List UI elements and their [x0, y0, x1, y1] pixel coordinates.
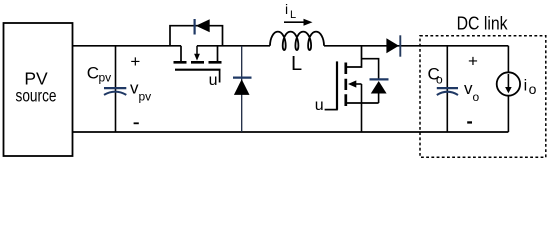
S2 diode triangle	[371, 81, 387, 94]
svg-text:o: o	[473, 90, 480, 104]
S2 gate lead	[325, 109, 338, 111]
wire D1 branch	[241, 46, 243, 132]
S1 drain stub	[180, 46, 182, 61]
svg-text:u: u	[209, 72, 218, 89]
D2 cathode bar	[399, 35, 401, 56]
S1 diode cathode bar	[194, 19, 196, 35]
svg-text:i: i	[524, 78, 528, 95]
wire bottom return rail	[73, 131, 508, 133]
S1 source stub	[217, 46, 219, 61]
svg-text:o: o	[436, 72, 443, 86]
svg-text:o: o	[529, 81, 537, 97]
D2 triangle	[386, 38, 399, 53]
wire top rail from switch source to inductor	[197, 45, 270, 47]
Cpv curved plate	[104, 92, 126, 95]
PV source box	[4, 23, 73, 156]
D1 triangle	[234, 79, 250, 95]
S2 source lead	[361, 84, 363, 132]
svg-text:pv: pv	[99, 71, 112, 85]
svg-text:pv: pv	[139, 90, 152, 104]
wire io branch	[507, 46, 509, 132]
inductor coil	[270, 32, 324, 51]
S2 drain lead	[347, 46, 362, 67]
wire top rail from PV source to switch drain	[73, 45, 181, 47]
diode D1 freewheeling branch	[233, 46, 252, 132]
svg-text:L: L	[291, 53, 302, 75]
Co curved plate	[437, 92, 458, 95]
S1 gate bar	[175, 69, 221, 71]
body diode of S1	[170, 19, 223, 46]
S2 body arrow	[356, 83, 362, 85]
polarity minus vo	[467, 121, 472, 123]
S1 channel dashes	[174, 61, 222, 64]
inductor L	[270, 32, 324, 75]
wire diode bypass loop	[170, 26, 223, 46]
svg-text:+: +	[468, 51, 478, 70]
wire Co branch	[446, 46, 448, 132]
S2 diode cathode bar	[370, 78, 389, 80]
body diode of S2	[362, 59, 389, 103]
S1 diode triangle	[196, 19, 210, 32]
S2 gate bar	[336, 61, 338, 109]
wire diode branch	[362, 59, 379, 103]
wire Cpv branch	[115, 46, 117, 132]
wire top rail from inductor to DC link	[324, 45, 508, 47]
svg-text:i: i	[285, 1, 288, 17]
label iL inductor current	[285, 1, 296, 21]
svg-text:L: L	[290, 9, 296, 21]
iL current direction arrow	[284, 19, 313, 26]
D1 cathode bar	[233, 76, 252, 78]
svg-text:C: C	[87, 64, 99, 83]
polarity minus vpv	[134, 122, 139, 124]
svg-text:u: u	[315, 97, 324, 114]
svg-text:+: +	[130, 52, 140, 71]
capacitor Co	[428, 46, 480, 132]
svg-text:source: source	[16, 86, 57, 106]
svg-text:DC link: DC link	[457, 14, 509, 34]
mosfet S2 bottom switch	[315, 46, 379, 132]
mosfet S1 top switch	[174, 46, 222, 89]
io arrow	[507, 74, 509, 89]
capacitor Cpv	[87, 46, 151, 132]
S1 body arrow	[196, 46, 198, 55]
S2 channel dashes	[344, 63, 347, 107]
io source circle	[497, 72, 520, 95]
S1 gate lead	[219, 70, 221, 83]
DC link dashed boundary box	[420, 36, 546, 157]
diode D2 series output diode	[386, 35, 400, 56]
current source io	[497, 46, 537, 132]
Co top plate	[437, 87, 458, 89]
Cpv top plate	[104, 87, 126, 89]
